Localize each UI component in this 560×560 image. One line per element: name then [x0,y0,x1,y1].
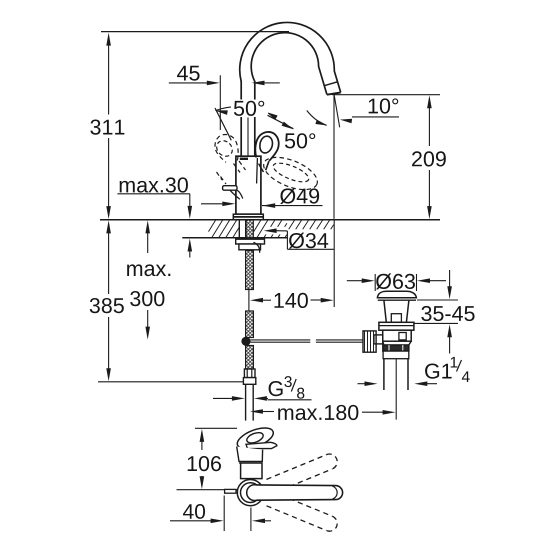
drain tailpipe [384,359,408,390]
loop handle outer [255,132,278,161]
plan body [241,463,262,479]
drain locknut band [383,351,409,359]
plan dashed lever upper [267,454,338,494]
rod clevis [374,335,383,344]
plan bottom reference line [177,489,238,491]
dimension 40 extension lines [224,496,251,532]
label O34 underline [287,248,334,250]
385 bottom reference line [98,381,247,383]
plan spout blade [246,442,277,448]
top reference line (faucet max height) [101,31,289,33]
angle label 50-1 [231,100,268,118]
spout tip block [324,82,341,95]
pop-up rod knob [223,186,243,200]
drain collar [379,322,414,330]
dimension label 311 [90,119,124,134]
plan lever ball [247,485,263,501]
label G38 underline [268,399,312,401]
angle arrow 10deg [315,120,327,126]
pop-up horizontal rod [251,340,364,342]
dimension 106 [200,429,205,489]
dimension label O63 [376,273,415,289]
drain centerline [395,359,397,420]
mounting nut [239,244,261,250]
dimension label 300 [130,291,164,306]
drain neck [384,300,409,322]
label O34 leader [264,228,288,249]
dimension label 45 [177,66,200,81]
35-45 upper reference line [417,299,458,301]
dimension label 140 [274,293,307,308]
label O34 [289,233,328,249]
drain overflow slot [399,333,406,340]
dimension max180 [250,409,396,414]
dimension 140 [250,298,334,303]
angle arrow 50-2 [282,122,294,130]
gooseneck outer arc [240,22,341,92]
plan escutcheon circle [237,480,263,506]
angle leg right dashed-position axis [268,115,294,128]
plan spout base [237,447,263,464]
angle label 50-2 [282,130,318,148]
counter bottom line [182,237,287,239]
pop-up rod tube [239,220,245,240]
dimension 40 [170,519,271,524]
extension line below counter [333,221,335,308]
dimension label 35-45 [421,306,474,321]
plan dashed lever lower [267,492,338,532]
dimension 209 vertical line [427,95,432,219]
label O49 [280,188,319,204]
dimension O63 [347,278,446,283]
flex hose segment 1 [246,251,254,290]
extension line 140 left [248,288,250,311]
plan spout under arc [241,449,264,452]
label G38 [269,376,305,398]
label G114 [425,357,470,382]
dimension max.30 leader [117,194,192,258]
mounting washer [236,239,265,244]
35-45 lower reference line [414,322,458,324]
plan spout swoosh outer [235,424,276,453]
extension line at counter corner [333,136,335,219]
dashed handle rotated left [214,134,246,184]
spout pipe left edge [240,81,242,156]
body width arrow left [201,202,235,207]
angle leg left dashed-position axis [215,108,231,140]
hose ferrule [244,369,255,378]
body top inner mark [240,158,248,160]
spout outlet reference line [332,94,440,96]
dimension label 40 [183,504,205,519]
counter hatching [209,220,334,237]
handle stem front line [256,158,259,184]
pop-up rod pivot [241,337,250,346]
drain locknut [383,345,409,351]
drain taper [383,341,412,345]
faucet body [236,156,261,214]
plan lever bar [257,485,343,500]
dimension label max.30 [120,177,188,192]
plan pop-up knob [225,489,236,493]
drain body [383,330,412,341]
plan spout swoosh inner [245,431,264,445]
dimension max180 label [278,405,358,420]
plan top reference line [195,427,237,429]
handle axis reference line [247,118,249,157]
dimension G114 [358,381,438,386]
angle arc 10deg [307,111,327,126]
dimension 311 vertical line [106,33,111,220]
loop handle stem [259,161,269,172]
threaded shank [246,220,253,240]
spout outlet 10deg leg [334,95,340,127]
dimension O63 extension lines [375,274,416,291]
drain flange underside [378,299,416,301]
dimension label max. [127,264,170,276]
G38 nipple [246,384,254,420]
dimension label 385 [90,298,124,313]
angle arrow 50-1 right [266,112,278,120]
counter top line [100,219,440,221]
dimension 45 [169,75,280,130]
angle arc 50-1 [216,107,266,112]
angle label 10deg [369,98,399,113]
G38 nut [243,378,255,385]
dimension 35-45 [447,270,452,354]
dimension G38 [213,396,268,401]
loop handle inner [260,136,273,153]
hose bend at nut [253,242,259,253]
angle arrow 50-1 left [215,110,228,115]
spout outlet vertical leg [333,95,335,136]
drain flange dome [377,291,416,297]
spout pipe right edge [254,81,256,156]
drain neck detail [391,314,401,323]
dashed handle rotated right [259,151,322,196]
label O34 halo [264,227,333,249]
flex hose segment 3 [246,346,254,370]
label O49 leader [262,203,323,208]
gooseneck inner arc [251,33,327,95]
faucet base plate [233,214,263,220]
rod clamp nut [363,331,376,352]
dimension max.300 vertical line [145,220,150,339]
label 10deg leader [340,117,399,123]
flex hose segment 2 [246,311,254,338]
dimension label 106 [188,456,221,471]
plan escutcheon ring [241,483,261,503]
dimension label 209 [412,151,446,166]
dimension 385 vertical line [106,220,111,381]
